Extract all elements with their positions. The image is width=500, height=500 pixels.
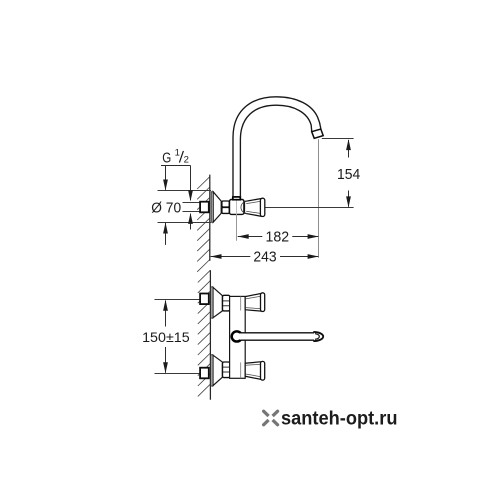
escutcheon side view — [211, 192, 221, 222]
dimension 182 — [238, 229, 319, 246]
svg-text:243: 243 — [253, 249, 276, 266]
wall hatch top view — [197, 177, 210, 272]
svg-text:150±15: 150±15 — [142, 330, 190, 345]
spout swivel ring plan — [232, 331, 242, 341]
spout arc inner — [240, 105, 311, 197]
dia70 dimension — [163, 166, 168, 245]
svg-text:182: 182 — [266, 229, 290, 246]
svg-text:Ø 70: Ø 70 — [151, 200, 181, 217]
ext lines 150 — [155, 299, 201, 301]
svg-text:G: G — [162, 151, 171, 167]
G1/2 stub lines — [183, 202, 201, 204]
watermark logo — [264, 411, 278, 425]
wall union square upper — [200, 294, 209, 305]
valve nut side view — [222, 201, 229, 213]
spout outlet — [312, 129, 324, 138]
G1/2 dimension — [188, 166, 193, 230]
spout end cap plan — [241, 332, 323, 341]
centerline valve extended — [265, 207, 354, 209]
faucet body column plan — [230, 296, 246, 378]
wall union square top view — [200, 202, 209, 213]
ext line 182 — [236, 215, 238, 241]
wall line top view — [209, 175, 211, 261]
wall union square lower — [200, 368, 209, 379]
handle lower plan — [245, 361, 265, 380]
svg-text:1: 1 — [175, 148, 180, 159]
valve nut upper plan — [223, 295, 230, 311]
ext line vertical gray — [318, 139, 320, 258]
valve body side view — [230, 200, 244, 215]
escutcheon lower plan — [211, 355, 222, 386]
svg-text:santeh-opt.ru: santeh-opt.ru — [281, 408, 398, 430]
valve nut lower plan — [223, 362, 230, 378]
dia70 extension lines — [158, 190, 212, 192]
escutcheon upper plan — [211, 287, 222, 318]
handle side view — [241, 198, 265, 216]
spout arc outer — [233, 97, 321, 197]
wall line bottom view — [209, 270, 211, 400]
label G 1/2 — [161, 148, 191, 167]
svg-text:2: 2 — [184, 154, 189, 165]
dimension 150±15 — [142, 300, 190, 374]
dimension 154 — [337, 139, 360, 207]
wall hatch bottom view — [198, 270, 211, 396]
spout pipe collar — [233, 197, 241, 200]
spout tube plan — [240, 333, 316, 339]
dimension 243 — [211, 249, 319, 266]
valve body edges plan — [240, 296, 242, 310]
svg-text:154: 154 — [337, 166, 360, 183]
ext line from outlet — [322, 138, 354, 140]
handle upper plan — [245, 293, 265, 312]
